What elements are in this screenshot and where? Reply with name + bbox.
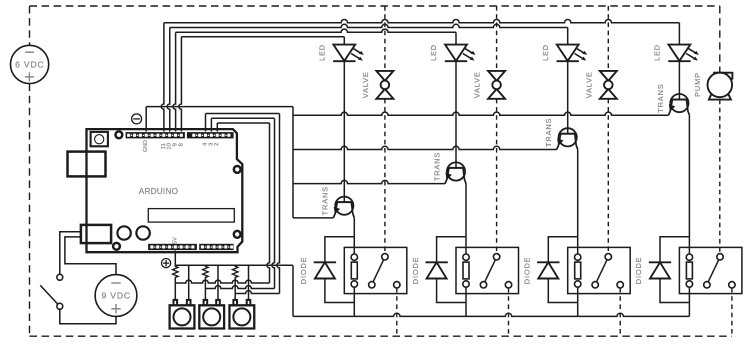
zone 1 dashed line upper bbox=[384, 6, 386, 71]
LED D4 triangle bbox=[669, 45, 691, 61]
relay K3 armature bbox=[597, 260, 608, 282]
transistor Q3 collector lead bbox=[575, 134, 578, 150]
wire drop to LED4 bbox=[678, 23, 680, 45]
Arduino mounting hole right-lower bbox=[234, 231, 241, 238]
battery B1 plus terminal mark bbox=[25, 72, 34, 81]
switch SW1 upper terminal bbox=[57, 274, 63, 280]
Arduino capacitor C2 bbox=[136, 226, 149, 239]
relay K3 coil terminal top bbox=[575, 254, 581, 260]
relay K2 common contact bbox=[493, 254, 499, 260]
wire tap button S3 node to pin riser bbox=[235, 291, 279, 294]
transistor Q4 base bar bbox=[672, 99, 687, 101]
svg-text:ARDUINO: ARDUINO bbox=[139, 187, 179, 196]
wire LED3 cathode to TRANS3 bbox=[567, 61, 569, 134]
wire pin 8 to LED1 top rail bbox=[181, 36, 344, 38]
pushbutton S3 right terminal bbox=[247, 300, 251, 305]
wire nest pin 4 horizontal bbox=[206, 113, 280, 115]
wire relay K3 coil top to diode bbox=[548, 237, 577, 262]
relay K2 NC contact bbox=[505, 282, 511, 288]
enclosure dashed border right upper (to pump) bbox=[719, 6, 721, 73]
wire relay K2 coil top to diode bbox=[437, 237, 466, 262]
Arduino USB connector bbox=[68, 152, 106, 177]
5V annotation circled plus bbox=[162, 259, 171, 268]
zone 3 dashed line from relay K3 NC to bottom bbox=[619, 288, 621, 336]
diode D6 triangle bbox=[427, 262, 447, 278]
wire diode to relay K2 coil bottom bbox=[437, 279, 466, 303]
svg-text:LED: LED bbox=[429, 44, 438, 61]
svg-text:9 VDC: 9 VDC bbox=[102, 291, 131, 301]
relay K4 NC contact bbox=[729, 282, 735, 288]
wire Arduino pin 8 riser (hops GND wire) bbox=[179, 37, 182, 132]
wire tap button S1 node to pin riser bbox=[175, 280, 269, 283]
dashed line relay K4 NC to bottom border bbox=[731, 288, 733, 336]
relay K1 coil terminal bottom bbox=[351, 281, 357, 287]
Arduino power header block (5V) bbox=[148, 244, 197, 250]
transistor Q2 emitter arrow bbox=[445, 173, 451, 181]
wire GND horizontal run bbox=[146, 106, 293, 108]
relay K3 common contact bbox=[605, 254, 611, 260]
svg-text:TRANS: TRANS bbox=[544, 118, 553, 147]
wire pin 10 to LED3 top rail bbox=[170, 24, 568, 27]
svg-text:VALVE: VALVE bbox=[584, 71, 593, 98]
relay K2 armature bbox=[485, 260, 496, 282]
pump volute bbox=[713, 73, 732, 79]
relay K4 armature bbox=[708, 260, 719, 282]
transistor Q2 circle bbox=[447, 162, 465, 180]
relay K1 common contact bbox=[382, 254, 388, 260]
transistor Q4 emitter arrow bbox=[669, 104, 675, 112]
valve V3 actuator circle bbox=[604, 81, 613, 90]
wire riser to Arduino pin 3 (hops 5V rail) bbox=[272, 118, 275, 288]
wire Arduino pin 11 riser (hops GND wire) bbox=[161, 23, 164, 132]
svg-text:DIODE: DIODE bbox=[299, 257, 308, 285]
wire relay K1 coil to plus bus bbox=[353, 287, 355, 316]
wire resistor R2 to button S2 left terminal bbox=[204, 279, 206, 301]
svg-text:PUMP: PUMP bbox=[693, 72, 702, 97]
zone 2 dashed line to relay K2 common bbox=[496, 99, 498, 254]
relay K2 NO contact bbox=[480, 282, 486, 288]
transistor Q2 base bar bbox=[449, 167, 464, 169]
wire TRANS4 collector to relay K4 coil bbox=[688, 115, 690, 254]
valve V3 lower triangle bbox=[600, 89, 617, 99]
Arduino mounting hole bottom-left bbox=[113, 243, 120, 250]
relay K3 coil terminal bottom bbox=[575, 281, 581, 287]
zone 2 dashed line upper bbox=[496, 6, 498, 71]
wire relay K4 coil to plus bus bbox=[688, 287, 690, 316]
transistor Q3 circle bbox=[559, 128, 577, 146]
wire button S1 right terminal to 5V rail bbox=[188, 265, 190, 300]
dashed line pump to relay K4 common bbox=[719, 100, 721, 254]
svg-text:DIODE: DIODE bbox=[411, 257, 420, 285]
valve V3 upper triangle bbox=[600, 71, 617, 81]
wire TRANS1 collector to relay K1 coil bbox=[353, 218, 355, 254]
diode D8 triangle bbox=[650, 262, 670, 278]
battery B1 6 VDC circle bbox=[11, 45, 49, 83]
wire GND bus to TRANS1 emitter bbox=[293, 217, 333, 219]
svg-text:VALVE: VALVE bbox=[361, 71, 370, 98]
LED D2 cathode bar bbox=[445, 60, 467, 62]
diode D7 cathode bar bbox=[537, 261, 559, 263]
Arduino mounting hole top-left bbox=[116, 131, 123, 138]
svg-text:2: 2 bbox=[214, 142, 220, 145]
diode D7 triangle bbox=[538, 262, 558, 278]
battery B2 9 VDC circle bbox=[95, 275, 137, 317]
wire nest pin 3 horizontal bbox=[211, 117, 274, 119]
resistor R2 bbox=[203, 265, 208, 278]
relay K3 box bbox=[568, 247, 631, 293]
relay K3 NO contact bbox=[592, 282, 598, 288]
wire riser to Arduino pin 4 (hops 5V rail) bbox=[277, 114, 280, 294]
transistor Q1 base bar bbox=[337, 201, 352, 203]
wire LED2 cathode to TRANS2 bbox=[455, 61, 457, 168]
battery B2 minus terminal mark bbox=[111, 282, 120, 284]
pushbutton S2 body bbox=[199, 305, 224, 328]
LED D2 emission arrows bbox=[463, 48, 473, 59]
Arduino IC socket bbox=[148, 209, 234, 223]
diode D6 cathode bar bbox=[425, 261, 447, 263]
LED D1 cathode bar bbox=[333, 60, 355, 62]
relay K3 NC contact bbox=[617, 282, 623, 288]
wire relay K2 coil to plus bus bbox=[465, 287, 467, 316]
wire riser to Arduino pin 2 (hops 5V rail) bbox=[267, 123, 270, 283]
pushbutton S2 cap bbox=[203, 308, 220, 325]
svg-text:8: 8 bbox=[178, 143, 184, 146]
switch SW1 lower terminal bbox=[57, 303, 63, 309]
wire Arduino pin 10 riser (hops GND wire) bbox=[167, 28, 170, 132]
wire drop to LED3 bbox=[567, 28, 569, 45]
transistor Q4 circle bbox=[670, 94, 688, 112]
wire TRANS2 collector to relay K2 coil bbox=[465, 184, 467, 255]
wire diode to relay K3 coil bottom bbox=[548, 279, 577, 303]
wire plus bus to relay coils bbox=[293, 313, 689, 316]
wire TRANS3 collector to relay K3 coil bbox=[577, 149, 579, 254]
wire Arduino pin 3 riser above header bbox=[210, 118, 212, 131]
enclosure dashed border left upper segment bbox=[29, 6, 31, 45]
relay K1 armature bbox=[373, 260, 384, 282]
enclosure dashed border left lower segment bbox=[29, 84, 31, 337]
wire GND vertical trunk bbox=[292, 107, 294, 218]
LED D3 triangle bbox=[557, 45, 579, 61]
Arduino capacitor C1 bbox=[117, 226, 130, 239]
relay K3 coil body bbox=[575, 262, 581, 279]
transistor Q1 circle bbox=[335, 197, 353, 215]
wire 5V rail to plus bus riser bbox=[292, 265, 294, 316]
relay K1 NC contact bbox=[394, 282, 400, 288]
relay K4 common contact bbox=[717, 254, 723, 260]
battery B2 plus terminal mark bbox=[111, 304, 120, 313]
svg-text:LED: LED bbox=[541, 44, 550, 61]
Arduino reset button bbox=[91, 132, 108, 146]
zone 1 dashed line to relay K1 common bbox=[384, 99, 386, 254]
pump base bbox=[709, 94, 731, 100]
svg-text:LED: LED bbox=[653, 44, 662, 61]
transistor Q3 emitter arrow bbox=[557, 138, 563, 146]
relay K4 coil terminal top bbox=[686, 254, 692, 260]
wire GND bus to TRANS4 emitter bbox=[293, 112, 668, 115]
diode D5 triangle bbox=[315, 262, 335, 278]
Arduino analog header block bbox=[199, 244, 233, 250]
wire drop to LED1 bbox=[343, 37, 345, 45]
wire GND pin riser bbox=[145, 107, 147, 132]
wire LED4 cathode to TRANS4 bbox=[678, 61, 680, 99]
wire diode to relay K1 coil bottom bbox=[325, 279, 354, 303]
LED D4 emission arrows bbox=[686, 48, 696, 59]
valve V1 upper triangle bbox=[376, 71, 393, 81]
Arduino mounting hole right-upper bbox=[234, 166, 241, 173]
resistor R3 bbox=[233, 265, 238, 278]
wire 5V pin drop bbox=[174, 251, 176, 266]
svg-text:6 VDC: 6 VDC bbox=[15, 60, 44, 70]
relay K1 coil body bbox=[351, 262, 357, 279]
wire resistor R1 to button S1 left terminal bbox=[174, 279, 176, 301]
svg-text:TRANS: TRANS bbox=[656, 83, 665, 112]
relay K2 coil body bbox=[463, 262, 469, 279]
wire from 9 VDC minus to switch lower terminal bbox=[60, 309, 116, 324]
wire from power jack to 9 VDC plus bbox=[65, 237, 116, 275]
diode D5 cathode bar bbox=[314, 261, 336, 263]
zone 3 dashed line upper bbox=[607, 6, 609, 71]
wire button S2 right terminal to 5V rail bbox=[217, 265, 219, 300]
wire relay K4 coil top to diode bbox=[660, 237, 689, 262]
Arduino power jack bbox=[81, 225, 111, 243]
transistor Q2 collector lead bbox=[463, 168, 466, 184]
wire tap button S2 node to pin riser bbox=[205, 286, 274, 289]
svg-text:DIODE: DIODE bbox=[523, 257, 532, 285]
zone 1 dashed line from relay K1 NC to bottom bbox=[396, 288, 398, 336]
valve V1 lower triangle bbox=[376, 89, 393, 99]
valve V1 actuator circle bbox=[381, 81, 390, 90]
diode D8 cathode bar bbox=[649, 261, 671, 263]
wire drop to LED2 bbox=[455, 32, 457, 44]
relay K1 NO contact bbox=[369, 282, 375, 288]
resistor R1 bbox=[173, 265, 178, 278]
switch SW1 lever bbox=[40, 285, 58, 304]
wire nest pin 2 horizontal bbox=[217, 122, 269, 124]
relay K1 box bbox=[344, 247, 407, 293]
battery B1 minus terminal mark bbox=[25, 51, 34, 53]
pushbutton S1 right terminal bbox=[187, 300, 191, 305]
zone 2 dashed line from relay K2 NC to bottom bbox=[508, 288, 510, 336]
svg-text:5V: 5V bbox=[172, 237, 178, 244]
pushbutton S1 body bbox=[170, 305, 195, 328]
svg-text:DIODE: DIODE bbox=[634, 257, 643, 285]
wire Arduino pin 2 riser above header bbox=[216, 123, 218, 132]
LED D4 cathode bar bbox=[668, 60, 690, 62]
relay K4 coil terminal bottom bbox=[686, 281, 692, 287]
relay K2 coil terminal top bbox=[463, 254, 469, 260]
enclosure dashed border top bbox=[30, 5, 720, 7]
wire from switch upper terminal to power jack bbox=[60, 232, 81, 275]
svg-text:TRANS: TRANS bbox=[432, 152, 441, 181]
transistor Q3 emitter lead bbox=[557, 134, 561, 150]
pushbutton S2 left terminal bbox=[204, 300, 208, 305]
transistor Q4 collector lead bbox=[686, 100, 689, 116]
Arduino board outline bbox=[87, 129, 243, 252]
relay K2 coil terminal bottom bbox=[463, 281, 469, 287]
relay K4 NO contact bbox=[704, 282, 710, 288]
relay K1 coil terminal top bbox=[351, 254, 357, 260]
svg-text:LED: LED bbox=[318, 44, 327, 61]
Arduino digital header block left (GND 13-8) bbox=[126, 132, 185, 138]
pushbutton S2 right terminal bbox=[216, 300, 220, 305]
pump body circle bbox=[708, 73, 733, 98]
relay K2 box bbox=[456, 247, 519, 293]
LED D1 emission arrows bbox=[351, 48, 361, 59]
pushbutton S3 left terminal bbox=[233, 300, 237, 305]
valve V2 actuator circle bbox=[492, 81, 501, 90]
valve V2 lower triangle bbox=[488, 89, 505, 99]
transistor Q1 emitter lead bbox=[333, 202, 337, 218]
zone 3 dashed line to relay K3 common bbox=[607, 99, 609, 254]
enclosure dashed border bottom bbox=[30, 335, 732, 337]
transistor Q1 emitter arrow bbox=[334, 207, 340, 215]
transistor Q4 emitter lead bbox=[668, 100, 672, 116]
wire Arduino pin 4 riser above header bbox=[205, 114, 207, 132]
wire relay K3 coil to plus bus bbox=[577, 287, 579, 316]
wire Arduino pin 9 riser (hops GND wire) bbox=[173, 32, 176, 131]
pushbutton S1 left terminal bbox=[174, 300, 178, 305]
svg-text:VALVE: VALVE bbox=[473, 71, 482, 98]
pushbutton S3 body bbox=[229, 305, 254, 328]
transistor Q3 base bar bbox=[560, 133, 575, 135]
Arduino digital header block right (7-2) bbox=[187, 132, 234, 138]
wire diode to relay K4 coil bottom bbox=[660, 279, 689, 303]
relay K4 box bbox=[679, 247, 742, 293]
wire GND bus to TRANS3 emitter bbox=[293, 146, 557, 149]
svg-text:TRANS: TRANS bbox=[321, 186, 330, 215]
LED D3 cathode bar bbox=[557, 60, 579, 62]
wire 5V rail bbox=[175, 264, 293, 266]
transistor Q2 emitter lead bbox=[445, 168, 449, 184]
LED D1 triangle bbox=[333, 45, 355, 61]
wire pin 11 to LED4 top rail bbox=[164, 19, 680, 22]
pushbutton S1 cap bbox=[174, 308, 191, 325]
Arduino reset button cap bbox=[95, 135, 104, 144]
relay K4 coil body bbox=[686, 262, 692, 279]
GND annotation circled minus bbox=[132, 114, 142, 124]
wire button S3 right terminal to 5V rail bbox=[248, 265, 250, 300]
wire resistor R3 to button S3 left terminal bbox=[234, 279, 236, 301]
wire GND bus to TRANS2 emitter bbox=[293, 180, 445, 183]
pushbutton S3 cap bbox=[233, 308, 250, 325]
wire LED1 cathode to TRANS1 bbox=[343, 61, 345, 202]
wire relay K1 coil top to diode bbox=[325, 237, 354, 262]
transistor Q1 collector lead bbox=[351, 202, 354, 218]
svg-text:GND: GND bbox=[143, 140, 149, 152]
LED D3 emission arrows bbox=[575, 48, 585, 59]
LED D2 triangle bbox=[445, 45, 467, 61]
wire pin 9 to LED2 top rail bbox=[176, 29, 456, 32]
valve V2 upper triangle bbox=[488, 71, 505, 81]
